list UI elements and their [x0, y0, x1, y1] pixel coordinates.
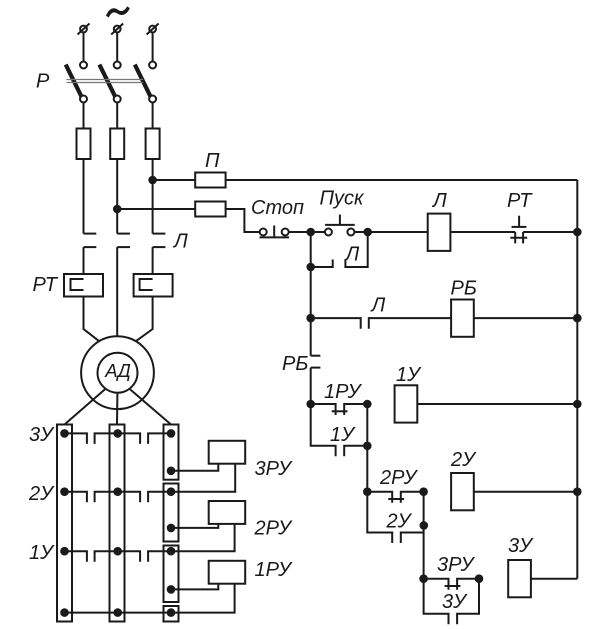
- node rail RB row: [573, 314, 582, 323]
- wire L3 heater to motor: [135, 297, 152, 342]
- svg-text:1У: 1У: [29, 542, 55, 564]
- wire row1U col3 to relay 2RU right lead: [171, 524, 235, 551]
- contactor L main contact 2: [117, 234, 130, 337]
- contact 3U link col2-col3 right part: [148, 433, 171, 444]
- switch P pole 2: [99, 62, 120, 103]
- wire relay 1RU left lead to col3: [171, 584, 218, 590]
- resistor column 3 section c: [164, 546, 179, 603]
- node B: [363, 228, 372, 237]
- coil 1U: [395, 385, 418, 422]
- wire coil RB to rail: [474, 317, 578, 319]
- fuse F3: [146, 129, 160, 160]
- svg-text:Л: Л: [431, 190, 447, 212]
- svg-text:2РУ: 2РУ: [254, 518, 294, 540]
- coil 2U: [451, 473, 474, 510]
- wire L1 heater to motor: [84, 297, 100, 342]
- node rail row1: [573, 228, 582, 237]
- node col3 3RU tap: [167, 467, 176, 476]
- wire L3 terminal to switch: [152, 32, 154, 61]
- node L3 control tap: [148, 176, 157, 185]
- wire L2 switch to fuse: [116, 103, 118, 129]
- thermal contact RT: [510, 216, 527, 244]
- node 3U row right: [475, 574, 484, 583]
- right rail: [576, 180, 578, 579]
- svg-text:2У: 2У: [386, 511, 413, 533]
- wire L1 terminal to switch: [83, 32, 85, 61]
- stop button NC: [260, 226, 290, 238]
- wire down to 3U row: [423, 533, 425, 579]
- contact 1U link col1-col2 right part: [95, 551, 118, 562]
- svg-text:3У: 3У: [508, 535, 534, 557]
- node row3U col3: [167, 429, 176, 438]
- wire L3 tap to fuse P: [153, 179, 196, 181]
- resistor column 3 section a: [164, 425, 179, 480]
- contact 3U link col1-col2: [65, 433, 87, 444]
- resistor column 3 section b: [164, 484, 179, 542]
- node rail 1U row: [573, 400, 582, 409]
- svg-text:3У: 3У: [442, 591, 468, 613]
- contact 3U link col2-col3: [118, 433, 140, 444]
- node bottom row col1: [60, 608, 69, 617]
- svg-text:РБ: РБ: [282, 353, 308, 375]
- contact 3U link col1-col2 right part: [95, 433, 118, 444]
- node A: [306, 228, 315, 237]
- node col3 2RU tap: [167, 524, 176, 533]
- node row3U col2: [113, 429, 122, 438]
- contact RB: [311, 318, 321, 404]
- contact 1RU: [311, 404, 368, 415]
- node row1U col3: [167, 547, 176, 556]
- wire stop to node A: [289, 231, 311, 233]
- node 2U bypass right: [420, 521, 429, 530]
- contact 1U link col2-col3: [118, 551, 140, 562]
- node 3U row left: [419, 574, 428, 583]
- svg-text:РТ: РТ: [33, 274, 59, 296]
- wire fuse P2 to Stop button: [226, 209, 260, 232]
- wire motor to resistor column 2: [116, 393, 118, 425]
- svg-text:2У: 2У: [28, 483, 55, 505]
- fuse F1: [77, 129, 91, 160]
- fuse F2: [110, 129, 124, 160]
- relay 2RU coil: [209, 501, 246, 524]
- coil L: [428, 214, 451, 251]
- wire L2 terminal to switch: [116, 32, 118, 61]
- resistor column 3 section d: [164, 606, 179, 622]
- contact 1U link col2-col3 right part: [148, 551, 171, 562]
- contact 3U bypass: [424, 579, 479, 625]
- node self-hold: [306, 263, 315, 272]
- start button NO: [311, 215, 368, 236]
- contact 2U link col2-col3 right part: [148, 492, 171, 503]
- node row1U col2: [113, 547, 122, 556]
- contact 1U link col1-col2: [65, 551, 87, 562]
- fuse P2: [195, 202, 225, 217]
- wire coil 1U to rail: [417, 403, 577, 405]
- svg-text:1У: 1У: [396, 364, 422, 386]
- svg-text:РБ: РБ: [451, 278, 477, 300]
- wire relay 3RU left lead to col3: [171, 464, 218, 471]
- resistor column 2: [110, 425, 125, 622]
- node row2U col2: [113, 487, 122, 496]
- node bottom row col3: [167, 608, 176, 617]
- svg-text:РТ: РТ: [507, 190, 533, 212]
- wire node A down: [310, 232, 312, 267]
- node 1U bypass right: [363, 442, 372, 451]
- svg-text:1У: 1У: [330, 424, 356, 446]
- thermal relay RT heater 1: [64, 274, 103, 297]
- contactor L main contact 1: [84, 234, 97, 274]
- contact 2U bypass: [367, 492, 423, 543]
- node bottom row col2: [113, 608, 122, 617]
- switch P mechanical link: [67, 80, 144, 83]
- svg-text:2РУ: 2РУ: [379, 467, 419, 489]
- svg-text:Стоп: Стоп: [251, 197, 304, 219]
- wire L3 switch to fuse: [152, 103, 154, 129]
- wire L3 fuse to contact: [152, 159, 154, 234]
- node L2 control tap: [113, 205, 122, 214]
- svg-text:3У: 3У: [29, 424, 55, 446]
- svg-text:2У: 2У: [450, 449, 477, 471]
- node row3U col1: [60, 429, 69, 438]
- node row2U col3: [167, 487, 176, 496]
- contact 2U link col1-col2: [65, 492, 87, 503]
- contact 1U bypass: [311, 404, 368, 456]
- node rail 2U row: [573, 487, 582, 496]
- switch P pole 1: [66, 62, 87, 103]
- switch P pole 3: [135, 62, 156, 103]
- fuse P: [195, 173, 225, 188]
- wire RT contact to rail: [523, 231, 577, 233]
- node 2U row left: [363, 487, 372, 496]
- phase L2 terminal: [111, 24, 123, 35]
- wire fuse P to right rail: [226, 179, 578, 181]
- svg-text:Л: Л: [172, 231, 188, 253]
- wire coil L to RT contact: [450, 231, 515, 233]
- phase L3 terminal: [147, 24, 159, 35]
- contactor L main contact 3: [153, 234, 166, 274]
- resistor column 1: [57, 425, 72, 622]
- contact L in RB row: [311, 318, 451, 329]
- wire self-hold node down to RB row: [310, 267, 312, 318]
- node RB row: [306, 314, 315, 323]
- thermal relay RT heater 2: [134, 274, 173, 297]
- contact 2RU: [367, 492, 423, 503]
- svg-text:АД: АД: [104, 360, 131, 381]
- wire motor to resistor column 3: [129, 389, 171, 425]
- node row2U col1: [60, 487, 69, 496]
- svg-text:1РУ: 1РУ: [255, 559, 294, 581]
- svg-text:1РУ: 1РУ: [324, 381, 363, 403]
- phase L1 terminal: [78, 24, 90, 35]
- wire L1 fuse to contact: [83, 159, 85, 234]
- coil 3U: [508, 560, 531, 597]
- svg-text:Пуск: Пуск: [320, 188, 365, 210]
- node col3 1RU tap: [167, 585, 176, 594]
- svg-text:3РУ: 3РУ: [255, 458, 294, 480]
- node row1U col1: [60, 547, 69, 556]
- node 1U row right: [363, 400, 372, 409]
- node 2U row right: [419, 487, 428, 496]
- node 1U row left: [306, 400, 315, 409]
- wire bottom row to relay 1RU right lead: [65, 584, 235, 613]
- wire L2 tap to fuse P2: [117, 208, 195, 210]
- wire down to 2U row: [366, 446, 368, 492]
- svg-text:Р: Р: [36, 71, 50, 93]
- wire coil 3U to rail: [531, 578, 577, 580]
- motor AD: [81, 336, 154, 409]
- contact 2U link col2-col3: [118, 492, 140, 503]
- wire row2U col3 to relay 3RU right lead: [171, 464, 235, 492]
- wire L2 fuse to contact: [116, 159, 118, 234]
- wire motor to resistor column 1: [65, 389, 106, 425]
- wire node B to coil L: [368, 231, 429, 233]
- relay 1RU coil: [209, 561, 246, 584]
- contact 2U link col1-col2 right part: [95, 492, 118, 503]
- contact 3RU: [424, 579, 479, 590]
- wire L1 switch to fuse: [83, 103, 85, 129]
- wire relay 2RU left lead to col3: [171, 524, 218, 528]
- wire coil 2U to rail: [474, 491, 578, 493]
- self-hold contact L: [311, 232, 368, 267]
- AC source tilde symbol: [106, 6, 130, 17]
- coil RB: [451, 300, 474, 337]
- svg-text:Л: Л: [370, 295, 386, 317]
- svg-text:3РУ: 3РУ: [437, 554, 476, 576]
- svg-text:П: П: [205, 150, 220, 172]
- relay 3RU coil: [209, 441, 246, 464]
